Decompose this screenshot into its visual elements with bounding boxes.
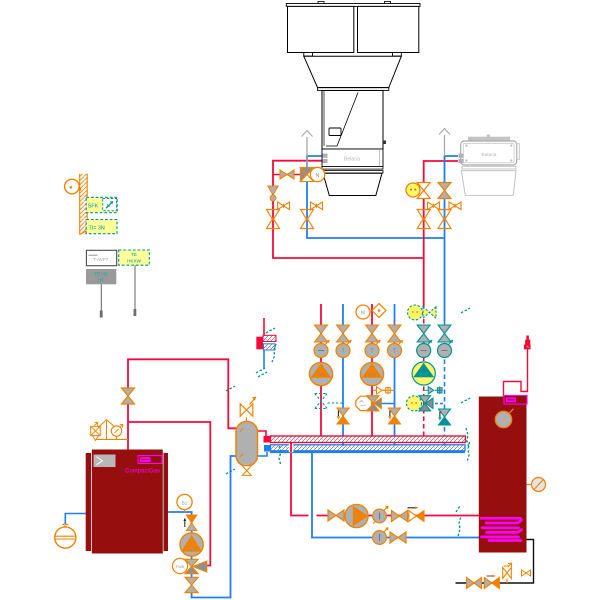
circuit 2 flow shutoff valve [366, 325, 379, 342]
circuit 2 flow thermometer [365, 340, 381, 358]
loading line shutoff valve [328, 510, 344, 521]
wall duct red side [256, 335, 276, 349]
svg-text:N: N [316, 173, 320, 179]
shutoff valve (open) on right red riser [417, 183, 430, 199]
circuit 3 bypass valve [425, 387, 445, 395]
svg-text:FWB: FWB [176, 565, 185, 569]
circuit 3 mixing valve with actuator (optional) [406, 396, 433, 411]
circuit 1 return shutoff valve [337, 325, 350, 342]
wire: circuit 2 blue pipe [394, 304, 396, 445]
boiler body [86, 450, 168, 554]
storage tank body [479, 397, 527, 553]
shutoff valve right red riser [417, 210, 430, 229]
circuit 1 pump [309, 362, 332, 385]
wire: blue circuit stubs between bars [343, 443, 445, 446]
wall section (orange hatched) [80, 174, 88, 235]
check valve on HP supply [280, 170, 294, 179]
boiler safety group [91, 420, 128, 441]
gap in return bar at crossing [289, 444, 294, 452]
circuit 1 flow thermometer [314, 340, 330, 358]
circuit 2 return thermometer [388, 340, 404, 358]
svg-text:HKXW: HKXW [127, 258, 141, 263]
heat pump feet [304, 53, 402, 57]
wire: red branch to 3-way valve [273, 174, 300, 176]
boiler name text [125, 469, 160, 475]
pipe break marks near tank inlet [456, 506, 461, 536]
boiler burner panel [94, 455, 116, 468]
pipe break mark below wall HX [258, 372, 267, 377]
wire: circuit 1 red pipe [320, 304, 322, 436]
outdoor temperature sensor AF [65, 179, 82, 194]
circuit 2 pump [360, 362, 383, 385]
circuit 1 flow shutoff valve [315, 325, 328, 342]
heat pump funnel [304, 56, 402, 90]
wire: circuit 3 mixer connector (blue dashed) [430, 403, 445, 405]
circuit 1 return thermometer [336, 340, 352, 358]
tank top sensor [495, 409, 513, 428]
svg-text:CompactGas: CompactGas [125, 469, 160, 475]
loading line valve 2 [392, 511, 408, 522]
circuit 3 flow thermometer [417, 340, 433, 358]
indoor unit base [461, 166, 516, 195]
indoor unit connection nubs [459, 154, 464, 163]
circuit 3 return shutoff valve [438, 325, 451, 342]
wire: expansion vessel pipe (blue) [65, 514, 86, 525]
wire: boiler flow pipe (red) to separator [128, 359, 237, 449]
wire: storage loading flow (red) manifold to tank [291, 443, 480, 516]
circuit 2 bypass valve [373, 387, 395, 395]
circuit 3 motor valve head (yellow) [408, 305, 437, 320]
boiler pump [180, 533, 203, 556]
drain valve on right blue riser [449, 202, 461, 210]
shutoff valve left red riser [267, 210, 280, 229]
boiler return sensor [177, 494, 192, 512]
heat pump connection nubs [323, 154, 328, 163]
svg-text:TI= 3N: TI= 3N [89, 226, 105, 232]
wire: wall heat-exchanger red drop [263, 318, 265, 336]
boiler flow shutoff valve [122, 388, 135, 404]
circuit 2 return shutoff valve [388, 325, 401, 342]
circuit 1 check flap (dashed, on-site) [315, 394, 343, 409]
circuit 2 balancing valve [388, 408, 400, 424]
svg-text:C4F: C4F [317, 372, 326, 377]
svg-text:M: M [361, 310, 365, 316]
pipe break mark right of wall HX [272, 344, 276, 362]
dhw drain valve on riser [522, 570, 532, 576]
shutoff valve left blue riser [301, 210, 314, 229]
wire: red crossing return bar [290, 443, 292, 452]
drain valve on left blue riser [311, 202, 323, 210]
sensor lead line 1 [100, 284, 103, 317]
loading line check valve [408, 506, 425, 521]
boiler return check valve [183, 515, 196, 531]
wire: circuit 2 red pipe [371, 304, 373, 436]
pipe break mark right of red line [256, 368, 265, 373]
dhw check valve [484, 575, 499, 589]
boiler logo plate [138, 456, 162, 464]
heat pump outdoor unit top bar [286, 1, 420, 6]
tank heating coil (magenta) [481, 518, 522, 540]
indoor unit body [461, 135, 520, 166]
controller box TE HE HK (grey) [86, 269, 116, 284]
pipe break mark left of separator drain [226, 469, 235, 474]
wall duct blue side [264, 344, 276, 350]
circuit 2 motor valve head [356, 304, 386, 320]
flow arrow left (grey) [302, 131, 313, 169]
motor 3-way valve on HP return [300, 167, 324, 181]
heat pump fan box right [358, 6, 419, 52]
shutoff valve right blue riser [438, 210, 451, 229]
circuit 3 balancing valve [438, 409, 450, 425]
wire: boiler return pipe (blue) from separator [163, 456, 237, 598]
pipe break mark near separator supply [226, 386, 235, 391]
dhw safety valve [503, 563, 512, 583]
return line thermometer [373, 527, 389, 544]
wire: circuit 2 mixer connector (blue) [378, 403, 395, 405]
circuit 3 flow shutoff valve [417, 325, 430, 342]
svg-text:P2: P2 [189, 546, 195, 551]
return line valve [390, 532, 406, 543]
controller box T-AVF7 [86, 250, 116, 265]
wire: right red riser to indoor unit [424, 161, 458, 307]
svg-text:HX1: HX1 [368, 372, 377, 377]
wire: wall heat-exchanger blue drop [263, 350, 265, 370]
svg-text:WW: WW [420, 372, 429, 377]
tank side thermometer [527, 478, 546, 492]
wire: right blue riser to indoor unit [445, 156, 459, 322]
pipe break marks right of circuit 3 [461, 308, 470, 403]
circuit 3 pump (optional) [412, 362, 435, 385]
svg-text:Belaria: Belaria [344, 157, 360, 163]
boiler return shutoff valve [185, 577, 198, 592]
return manifold bar (blue) [258, 445, 466, 456]
wire: red dashed riser to manifold (optional circuit) [423, 319, 425, 436]
svg-text:B1: B1 [182, 500, 188, 505]
heat pump body [322, 91, 386, 150]
dhw shutoff valve [467, 578, 482, 589]
drain valve on right red riser [428, 202, 440, 210]
yellow box TE HKXW [119, 250, 150, 265]
heat pump label band [322, 149, 383, 167]
circuit 2 mixing valve with actuator [356, 396, 382, 411]
yellow box H=3N [86, 220, 117, 234]
heat pump base [322, 167, 383, 196]
svg-text:T: T [370, 349, 373, 355]
loading pump [345, 504, 368, 527]
svg-text:HK: HK [98, 278, 105, 283]
svg-text:T: T [341, 349, 344, 355]
pipe break marks at manifold right end [466, 428, 470, 462]
safety valve above separator [240, 397, 256, 422]
svg-text:TE HE: TE HE [94, 272, 108, 277]
sensor lead line 2 [134, 265, 137, 316]
drain valve on left red riser [278, 202, 290, 210]
loading line thermometer [373, 506, 389, 524]
svg-text:T: T [393, 349, 396, 355]
wire: circuit 1 blue pipe [342, 304, 344, 445]
circuit 3 return thermometer [438, 340, 454, 358]
wire: heat-pump supply pipe (red) left loop [273, 161, 424, 258]
pipe break mark near return bar start [279, 446, 281, 464]
pipe break mark above wall HX [266, 328, 275, 333]
svg-text:T-AVF7: T-AVF7 [93, 257, 109, 262]
wire: blue dashed riser to manifold (optional circuit) [444, 322, 446, 445]
boiler mixing valve FWB [172, 558, 206, 573]
circuit 1 balancing valve [337, 408, 349, 424]
separator drain valve [242, 466, 251, 476]
svg-text:Belaria: Belaria [482, 152, 497, 158]
wire: storage loading return (blue) manifold to tank [312, 452, 480, 538]
expansion vessel [55, 524, 76, 548]
svg-text:TE: TE [131, 252, 137, 257]
wire: tank air-vent pipe (red) [504, 349, 528, 397]
sensor pocket on right red riser (yellow) [406, 183, 420, 197]
supply manifold bar (red) [258, 431, 466, 443]
wire: domestic hot water pipe (black) [456, 540, 534, 584]
grey valve on right blue riser [438, 183, 451, 199]
flow arrow right (grey) [439, 129, 450, 157]
yellow box SFK [86, 197, 117, 212]
svg-text:SFK: SFK [88, 204, 99, 210]
hydraulic separator vessel [236, 422, 258, 467]
tank logo plate [504, 396, 527, 405]
wire: boiler safety/mixing branch (red) [128, 422, 210, 566]
tank air vent [524, 336, 531, 350]
heat pump fan box left [288, 6, 354, 52]
wire: heat-pump return pipe (blue) left loop [307, 156, 445, 238]
relief valve on left red riser [268, 186, 278, 201]
